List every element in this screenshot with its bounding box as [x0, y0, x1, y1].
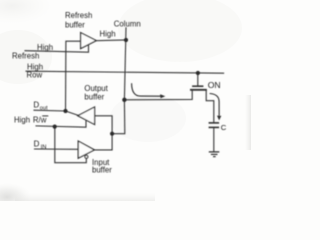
svg-text:ON: ON	[208, 80, 221, 90]
svg-text:High: High	[14, 115, 30, 124]
svg-text:Row: Row	[27, 71, 43, 80]
svg-text:R/w: R/w	[33, 115, 47, 124]
svg-text:IN: IN	[41, 144, 47, 150]
svg-text:buffer: buffer	[84, 92, 104, 101]
svg-text:C: C	[221, 123, 227, 132]
svg-text:High: High	[100, 29, 116, 38]
svg-text:Refresh: Refresh	[12, 51, 39, 60]
svg-text:buffer: buffer	[92, 166, 112, 175]
svg-text:D: D	[34, 139, 40, 148]
svg-text:out: out	[40, 105, 48, 111]
svg-text:Refresh: Refresh	[65, 11, 92, 20]
svg-text:Column: Column	[114, 19, 141, 28]
svg-text:D: D	[33, 101, 39, 110]
svg-text:buffer: buffer	[65, 20, 85, 29]
svg-text:High: High	[37, 43, 53, 52]
